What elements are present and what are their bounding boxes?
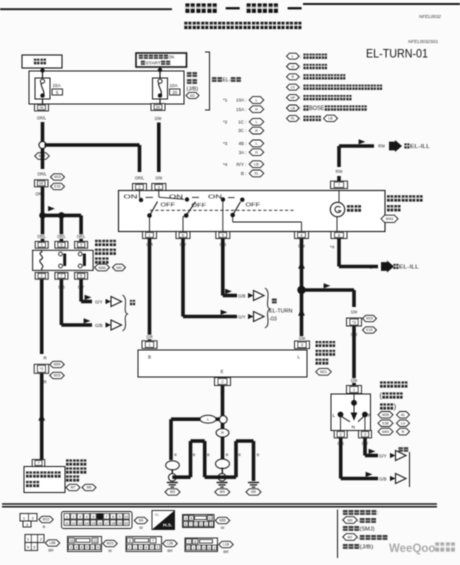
hazard switch bottom pin 1 [143,232,157,239]
svg-text:OR/L: OR/L [135,176,145,181]
svg-text:1: 1 [66,515,68,519]
page label 下页 [398,447,403,452]
svg-text:8: 8 [112,515,114,519]
svg-text:1: 1 [148,232,150,237]
circle at center ground [221,468,223,474]
svg-text:3: 3 [301,342,303,347]
svg-text:3: 3 [129,546,131,550]
wire label G/W above pin3 [155,176,163,181]
svg-text:5: 5 [86,546,88,550]
branch OR/L to hazard switch pin 2 [45,143,140,146]
svg-text:17: 17 [105,521,109,525]
wire G/W down from fuse 2K [159,99,161,104]
wire R down to hazard output [40,373,44,459]
svg-text:BR: BR [167,549,173,553]
svg-text:EL-ILL: EL-ILL [410,144,431,150]
svg-text:R: R [44,356,47,361]
smart entrance control unit label 智能进入控制单元 [66,459,72,465]
svg-text:15: 15 [91,521,95,525]
wire G/B from hazard pin5 to EL-TURN-03 [219,242,227,247]
svg-text:(SMJ): (SMJ) [360,526,375,532]
lens joint on center drop [216,459,230,469]
svg-text:5: 5 [222,232,224,237]
svg-text:OR/L: OR/L [57,234,66,239]
connector circle at flasher ground [219,416,227,424]
svg-text:LB: LB [328,117,333,121]
svg-text:1: 1 [134,546,136,550]
connector *3 SMJ [347,318,362,326]
svg-text:5: 5 [190,517,192,521]
svg-text:8: 8 [338,232,340,237]
ground symbol center [217,482,228,484]
svg-text:B: B [257,453,260,457]
arrow to EL-ILL top [389,140,402,152]
svg-text:W3: W3 [170,490,175,494]
combination flasher unit box [138,350,307,377]
svg-text:9: 9 [203,546,205,550]
svg-text:1: 1 [148,342,150,347]
svg-text:M49: M49 [382,430,389,434]
svg-text:M6: M6 [87,486,92,490]
svg-text:11: 11 [65,521,69,525]
svg-text:R/W: R/W [378,144,385,149]
svg-text:B: B [148,355,151,360]
flasher name 组合式闪光器单元 [316,341,322,347]
relay contact 1 [59,252,63,256]
footer connector row2 C [126,537,162,552]
svg-text:L: L [255,120,257,124]
wire G/B from combination switch pin2 [337,441,345,446]
title 电路图 — 转向灯 — [185,3,194,13]
relay top pin 6 [55,241,68,248]
svg-text:L: L [255,142,257,146]
svg-text:AL: AL [401,413,405,417]
wire to relay pin1 [41,215,45,241]
svg-text:-03: -03 [269,317,277,323]
svg-text:NFEL0032: NFEL0032 [419,14,441,19]
svg-text:LB: LB [254,163,259,167]
svg-text:NFEL0032S01: NFEL0032S01 [408,39,439,44]
svg-text:): ) [394,404,396,411]
svg-text:3: 3 [187,546,189,550]
svg-text:OR/L: OR/L [37,172,47,177]
svg-text:6: 6 [185,523,187,527]
svg-text:0: 0 [92,546,94,550]
footer connector row2 A [25,535,44,543]
svg-text:G/B: G/B [95,323,103,328]
svg-text:4: 4 [86,515,88,519]
wire G/B from relay pin7 to page arrow [58,285,66,290]
wire label G/W [350,332,358,337]
svg-text:*3: *3 [223,141,228,146]
svg-text:1: 1 [205,523,207,527]
hazard switch bottom pin 8 [331,232,347,239]
svg-text:M9: M9 [348,518,353,522]
relay bottom pin 7 [55,272,68,279]
thin reference line [409,452,411,487]
illumination lamp in hazard switch [338,191,340,203]
svg-text:B: B [43,525,46,529]
svg-text:R: R [221,431,224,435]
relay name 多功能遥控继电器 [95,240,101,246]
svg-text:R: R [44,380,47,385]
svg-text:7: 7 [338,182,340,187]
flasher bottom pin E [215,378,231,386]
svg-text:*4: *4 [223,162,228,167]
ground bus 1 [172,475,190,479]
footer note 参见以下内容 [343,510,348,515]
svg-text:L8B: L8B [49,541,56,545]
svg-text:M15: M15 [54,175,61,179]
footer connector 2 big [62,512,133,529]
svg-text:20: 20 [124,521,128,525]
relay top pin 3 [75,241,88,248]
wire B left drop [169,419,173,460]
svg-text:5: 5 [80,274,82,278]
svg-text:LB: LB [291,106,296,110]
svg-text:8: 8 [129,539,131,543]
combination switch bottom pin 3 [359,431,372,438]
wire G/W branch right [302,288,355,292]
svg-text:L: L [207,418,209,422]
hazard switch top pin 3 [152,184,166,191]
wire label G/W [154,116,162,121]
svg-text:*1: *1 [223,98,228,103]
svg-text:*2: *2 [223,119,228,124]
svg-text:12: 12 [72,521,76,525]
svg-text:LU: LU [401,421,406,425]
svg-text:3: 3 [210,523,212,527]
svg-text:OFF: OFF [192,203,207,209]
svg-text:3: 3 [200,523,202,527]
svg-text::: : [300,116,301,121]
brace for relay page arrows [123,295,128,331]
svg-text:BR: BR [48,549,54,553]
svg-text:14: 14 [85,521,89,525]
svg-text:15A :: 15A : [236,107,246,112]
switch linkage dashed line [150,209,294,211]
footer divider [337,510,339,559]
svg-text:2: 2 [41,274,43,278]
svg-text:KL: KL [155,513,159,517]
hazard switch bottom pin 6 [176,232,190,239]
flasher top pin left [142,341,157,349]
svg-text:0: 0 [151,546,153,550]
footer connector row2 B [68,537,102,552]
wire ignition to fuse block [159,67,161,78]
svg-text:ON: ON [169,195,183,201]
svg-text:L: L [298,355,301,360]
svg-text:8: 8 [194,540,196,544]
svg-text:OFF: OFF [161,203,176,209]
svg-text:START: START [146,61,161,67]
relay bottom pin 2 [35,272,48,279]
svg-text:*4: *4 [330,245,335,250]
relay coil [40,250,43,270]
svg-text:L: L [255,98,257,102]
svg-text:G/B: G/B [238,293,246,298]
wire G/W from hazard pin4 down [298,244,306,249]
svg-text:10A :: 10A : [236,98,246,103]
combination switch internals [353,394,355,403]
svg-text:1E: 1E [39,181,44,186]
svg-text:6: 6 [208,546,210,550]
svg-text:10A: 10A [170,83,179,88]
svg-text:9: 9 [140,546,142,550]
relay bottom pin 5 [75,272,88,279]
svg-text:L: L [333,413,336,419]
reference 参见EL-电源 [212,77,217,82]
svg-text:10: 10 [124,515,128,519]
svg-text:E: E [221,369,224,374]
svg-text:R/Y :: R/Y : [236,162,246,167]
svg-text:(J/B): (J/B) [187,86,199,92]
svg-text:9: 9 [97,546,99,550]
wire R/W from hazard pin7 up to EL-ILL [337,146,341,167]
ground symbol right [248,482,259,484]
wire B center drop [221,437,225,459]
wire label G/W [350,310,358,315]
relay top pin 1 [35,241,48,248]
legend item VP 带多功能遥控系统 [287,95,300,101]
hazard switch name 危险警告灯开关 [387,195,393,201]
svg-text:2: 2 [157,546,159,550]
combination switch box [331,394,371,431]
svg-text:H: H [255,108,258,112]
wire G/Y from relay pin5 to page arrow [77,285,85,290]
wire label G/W above flasher pin3 [298,336,306,341]
lens joint on left drop [166,461,180,470]
svg-text:-: - [358,518,360,524]
brace and label 至EL-TURN-03 [265,288,270,328]
svg-text::: : [300,85,301,90]
svg-text:7K: 7K [39,105,44,110]
svg-text:6: 6 [145,546,147,550]
ground bus 2 [205,475,236,479]
svg-text:EL-ILL: EL-ILL [399,265,420,271]
svg-text:3: 3 [158,184,160,189]
svg-text:ON: ON [169,55,175,61]
svg-text:ON: ON [124,195,138,201]
footer connector 1 [20,514,37,522]
wire to relay pin3 [79,215,83,241]
wire G/W down to combination switch [352,326,356,386]
svg-text:G/W: G/W [351,378,358,383]
connector *2 SMJ [34,364,49,373]
svg-text:2: 2 [73,515,75,519]
multi-remote control relay box [33,250,94,270]
svg-text:M55: M55 [219,519,226,523]
svg-text::: : [300,54,301,59]
svg-text:L1B: L1B [223,543,230,547]
svg-text:N: N [352,425,356,431]
header rule left segment [0,8,172,10]
svg-text:M9: M9 [251,490,256,494]
relay contact 2 [78,252,82,256]
svg-text:E15: E15 [54,185,60,189]
fuse block box J/B [29,71,184,104]
svg-text:E15: E15 [366,328,372,332]
svg-text:13: 13 [78,521,82,525]
svg-text:W9: W9 [220,490,225,494]
svg-text:EL-TURN: EL-TURN [269,309,292,315]
svg-text:7: 7 [60,274,62,278]
svg-text:7: 7 [190,523,192,527]
connector pin on hazard output box [32,460,45,467]
lamp label 照明 [347,205,353,212]
svg-text:H: H [291,65,294,69]
fuse F5 15A [35,78,50,99]
svg-text:2: 2 [213,546,215,550]
fuse block label 保险丝盒 (J/B) M1 [187,72,192,77]
svg-text:OR/L: OR/L [37,116,47,121]
wire label OR/L above pin2 [134,176,145,181]
wire OR/L down from fuse 7K [42,99,44,104]
connector 7K [35,104,49,111]
svg-text:EL-: EL- [223,77,231,83]
svg-text:M1: M1 [190,94,195,98]
legend item H 右舵车型 [287,64,300,70]
svg-text:L2B: L2B [167,542,174,546]
svg-text:3C :: 3C : [238,128,246,133]
svg-text:M44: M44 [386,217,393,221]
svg-text:ON: ON [208,195,222,201]
svg-text:H: H [255,151,258,155]
svg-text:B :: B : [241,171,247,176]
svg-text:5: 5 [92,515,94,519]
svg-text:G/W: G/W [155,116,162,121]
wire OR/L to relay branch [41,187,45,215]
wire labels OR/L x3 [37,234,47,238]
svg-text:G/W: G/W [155,176,162,181]
hazard warning output box 危险警告灯输出 [24,467,65,493]
svg-text:3A :: 3A : [239,150,247,155]
svg-text:W23: W23 [107,542,114,546]
svg-text:1: 1 [198,546,200,550]
jumper П1 [189,441,193,477]
svg-text:3: 3 [70,546,72,550]
svg-text:M21: M21 [320,370,327,374]
svg-text:OR/L: OR/L [37,234,46,239]
svg-text:L: L [292,55,294,59]
svg-text:*4: *4 [368,265,373,270]
svg-text::: : [300,64,301,69]
svg-text:15: 15 [70,539,74,543]
svg-text:1: 1 [193,546,195,550]
wire G/Y from hazard pin6 to EL-TURN-03 [179,242,187,247]
footer double rule [2,503,437,505]
svg-text:7: 7 [188,540,190,544]
ground bus horizontal with joint [171,417,223,421]
svg-text:BR: BR [223,550,229,554]
svg-text:XL: XL [291,117,295,121]
svg-text:W22: W22 [43,518,50,522]
battery source box 电源 [22,55,62,68]
connector 1E SMJ [35,180,49,187]
hazard switch top pin 2 [133,184,147,191]
svg-text:R: R [368,413,372,419]
header rule right segment [303,3,460,5]
svg-text:M7: M7 [348,535,353,539]
svg-text:2K: 2K [156,104,161,109]
svg-text:3: 3 [364,432,366,437]
legend item XL trailing hexagon [324,115,338,121]
svg-text:G/W: G/W [351,310,358,315]
footer connector row2 D [185,538,218,552]
hazard switch box M44 [119,191,386,232]
legend item LB 带BOSE 系统的左舵车型 [287,105,300,111]
H.S. logo [152,511,175,530]
footer connector 3 [183,515,215,528]
svg-text:M4: M4 [139,519,144,523]
lens joint below circle [216,429,229,437]
connector 2K [151,104,165,111]
svg-text:G/Y: G/Y [95,300,103,305]
svg-text:R: R [255,129,258,133]
svg-text:BOSE: BOSE [309,106,324,112]
svg-text:2: 2 [340,432,342,437]
connector circle M72 on OR/L wire [39,141,46,148]
svg-text:9: 9 [119,515,121,519]
fuse F20 10A [153,78,168,99]
svg-text:WeeQoo: WeeQoo [389,543,435,555]
svg-text:R/W: R/W [336,169,343,174]
wire label OR/L [35,192,46,197]
svg-text:15A: 15A [53,83,62,88]
svg-text:6: 6 [60,243,62,247]
switch pole 2 [158,191,160,198]
switch pole 1 [139,191,141,199]
wire G/Y from combination switch pin3 [361,441,369,446]
svg-text:W7: W7 [70,486,75,490]
legend item R 带自动灯光系统 [287,74,300,80]
ignition switch box 点火开关处于ON 或START位置 [136,53,187,67]
svg-text:W: W [221,526,225,530]
svg-text:M9: M9 [117,266,122,270]
svg-text:(J/B): (J/B) [360,544,374,550]
wire to relay pin6 [60,215,64,241]
section bracket [205,52,210,110]
svg-text:M39: M39 [54,363,61,367]
svg-text:16: 16 [98,521,102,525]
svg-text:20: 20 [172,90,177,95]
svg-text:LV: LV [291,86,296,90]
svg-text::: : [300,106,301,111]
svg-text:M15: M15 [366,317,373,321]
svg-text:1C :: 1C : [238,119,246,124]
svg-text:M28: M28 [382,413,389,417]
wire battery to fuse block [42,68,44,78]
svg-text:M48: M48 [99,266,106,270]
svg-text:H.S.: H.S. [163,523,172,529]
svg-text:G/B: G/B [379,476,387,481]
svg-text:18: 18 [111,521,115,525]
svg-text:7: 7 [37,461,39,465]
junction dot on G/W [297,286,305,294]
flasher top pin right [295,341,310,349]
svg-text:3: 3 [80,243,82,247]
svg-text:7: 7 [152,539,154,543]
svg-text:G/Y: G/Y [379,453,387,458]
circle at left ground [171,469,173,473]
svg-text:1: 1 [41,243,43,247]
svg-text:E38: E38 [382,421,388,425]
svg-text:13: 13 [93,539,97,543]
svg-text:19: 19 [118,521,122,525]
subtitle 左舵车型和不带角灯的右舵车型 [184,22,191,29]
combination switch top pin 1 [347,386,362,394]
svg-text:4: 4 [185,517,187,521]
